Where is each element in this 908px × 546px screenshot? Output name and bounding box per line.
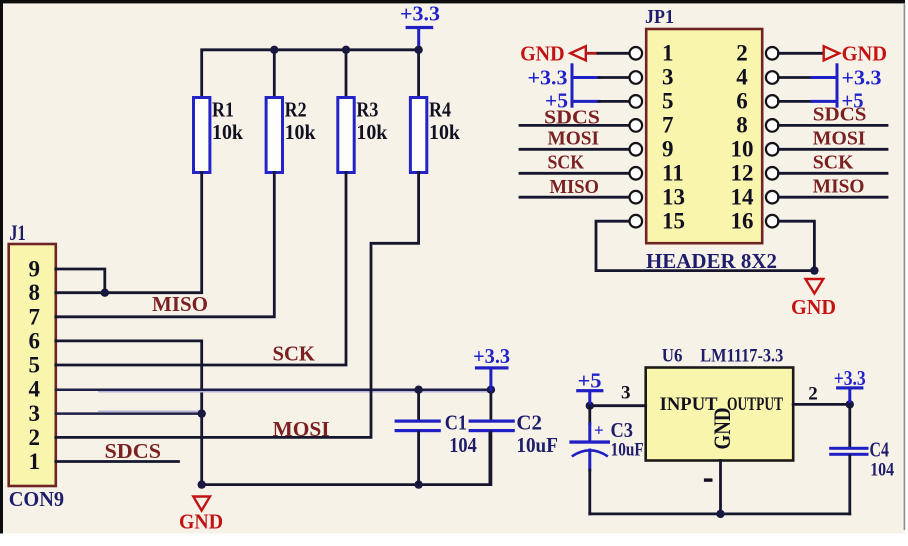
- svg-text:9: 9: [29, 256, 41, 281]
- power +3.3 top symbol: [400, 2, 440, 50]
- svg-text:10: 10: [731, 137, 754, 162]
- wire JP1 pin7 SDCS: [520, 124, 631, 127]
- wire J1 pin5 SCK to R3: [56, 173, 346, 366]
- wire JP1 pin3: [599, 76, 631, 79]
- svg-text:104: 104: [870, 460, 894, 481]
- regulator U6: [646, 347, 794, 461]
- svg-text:R2: R2: [285, 98, 307, 122]
- svg-text:U6: U6: [662, 347, 683, 367]
- wire bottom ground rail: [202, 432, 490, 485]
- wire R3 top lead: [345, 50, 348, 98]
- junction pin4-C1: [414, 386, 422, 394]
- ground symbol GND left: [179, 497, 223, 534]
- wire R4 top lead: [417, 50, 420, 98]
- wire JP1 pin16 to ground: [778, 221, 814, 270]
- svg-text:7: 7: [29, 304, 41, 329]
- wire JP1 pin8 SDCS: [778, 124, 887, 127]
- resistor R1: [194, 98, 244, 173]
- wire J1 pin3 to ground line: [98, 410, 199, 412]
- junction pin15-pin16 ground: [810, 266, 818, 274]
- wire JP1 pin6: [778, 100, 812, 103]
- svg-text:MOSI: MOSI: [813, 127, 866, 149]
- power +5 right of JP1 pin6: [812, 89, 864, 113]
- capacitor C2: [469, 390, 558, 485]
- header JP1: [645, 6, 777, 273]
- pin circle JP1-3: [630, 71, 643, 84]
- svg-text:10k: 10k: [356, 120, 387, 144]
- capacitor C4: [829, 404, 894, 514]
- svg-text:5: 5: [662, 89, 674, 114]
- svg-text:CON9: CON9: [9, 487, 64, 511]
- svg-text:JP1: JP1: [645, 6, 674, 28]
- pin circle JP1-8: [766, 119, 779, 132]
- svg-text:14: 14: [731, 184, 755, 209]
- svg-text:11: 11: [662, 161, 684, 186]
- wire J1 pin6 to ground rail: [56, 341, 202, 485]
- svg-text:15: 15: [662, 208, 685, 233]
- svg-text:3: 3: [662, 65, 674, 90]
- wire JP1 pin2: [778, 52, 822, 55]
- pin circle JP1-2: [766, 47, 779, 60]
- svg-text:J1: J1: [9, 220, 26, 245]
- power +3.3 left of JP1 pin3: [528, 65, 600, 106]
- svg-text:+3.3: +3.3: [473, 344, 510, 368]
- svg-text:3: 3: [621, 383, 631, 404]
- minus sign at U6 gnd: [704, 478, 713, 481]
- svg-text:R4: R4: [429, 98, 451, 122]
- svg-text:6: 6: [736, 89, 748, 114]
- svg-text:6: 6: [29, 328, 41, 353]
- svg-text:+3.3: +3.3: [842, 66, 882, 90]
- svg-text:3: 3: [29, 401, 41, 426]
- svg-text:C1: C1: [445, 411, 467, 435]
- svg-text:MOSI: MOSI: [273, 417, 330, 441]
- svg-text:7: 7: [662, 113, 674, 138]
- svg-text:2: 2: [29, 425, 41, 450]
- svg-text:R3: R3: [356, 98, 378, 122]
- svg-text:C2: C2: [516, 411, 542, 435]
- wire J1 pin7 to R2: [56, 173, 274, 317]
- svg-text:5: 5: [29, 353, 41, 378]
- pin circle JP1-12: [766, 167, 779, 180]
- svg-text:C3: C3: [611, 418, 634, 442]
- svg-text:MISO: MISO: [550, 176, 600, 198]
- svg-text:4: 4: [29, 377, 41, 402]
- svg-text:10k: 10k: [429, 120, 460, 144]
- wire J1 pin1 SDCS stub: [56, 460, 179, 463]
- pin circle JP1-11: [630, 167, 643, 180]
- svg-text:MOSI: MOSI: [548, 127, 600, 149]
- svg-text:SCK: SCK: [273, 341, 316, 365]
- resistor R3: [338, 98, 388, 173]
- pin circle JP1-13: [630, 191, 643, 204]
- wire JP1 pin15 to ground: [596, 221, 814, 270]
- junction +5 C3 input: [586, 402, 594, 410]
- svg-text:8: 8: [736, 113, 748, 138]
- junction U6 gnd rail: [716, 510, 724, 518]
- svg-text:4: 4: [736, 65, 748, 90]
- svg-text:C4: C4: [870, 438, 890, 462]
- pin circle JP1-16: [766, 215, 779, 228]
- svg-text:GND: GND: [520, 41, 565, 65]
- wire JP1 pin13 MISO: [520, 196, 631, 199]
- svg-text:+5: +5: [578, 368, 602, 392]
- svg-text:+3.3: +3.3: [400, 2, 440, 26]
- wire J1 pin2 MOSI to R4: [56, 173, 419, 438]
- svg-text:2: 2: [736, 41, 748, 66]
- pin circle JP1-7: [630, 119, 643, 132]
- junction pin4-C2: [487, 386, 495, 394]
- junction rail-gnd: [198, 480, 206, 488]
- power +3.3 at C2: [473, 344, 510, 390]
- junction pin9-pin8: [101, 289, 109, 297]
- svg-text:GND: GND: [179, 510, 223, 534]
- svg-text:MISO: MISO: [813, 176, 865, 198]
- pin circle JP1-14: [766, 191, 779, 204]
- junction output +3.3 C4: [846, 400, 854, 408]
- resistor R4: [410, 98, 460, 173]
- svg-text:10k: 10k: [285, 120, 316, 144]
- power +3.3 at U6 output: [834, 366, 866, 404]
- junction bus-R3: [342, 46, 350, 54]
- power +5 at U6 input: [576, 368, 603, 405]
- svg-text:GND: GND: [710, 408, 735, 450]
- wire JP1 pin4: [778, 76, 812, 79]
- svg-text:GND: GND: [791, 295, 836, 319]
- svg-text:SCK: SCK: [548, 151, 585, 173]
- svg-text:2: 2: [808, 384, 818, 405]
- svg-text:SDCS: SDCS: [813, 103, 867, 125]
- wire JP1 pin12 SCK: [778, 172, 887, 175]
- svg-text:1: 1: [29, 449, 41, 474]
- svg-text:104: 104: [449, 433, 477, 457]
- wire JP1 pin5: [599, 100, 631, 103]
- wire U6 gnd pin: [719, 461, 722, 514]
- capacitor C3 electrolytic: [569, 406, 643, 514]
- wire U6 bottom rail: [590, 513, 850, 516]
- connector J1: [9, 220, 64, 511]
- junction pin3-ground: [198, 409, 206, 417]
- ground GND arrow left of JP1 pin1: [520, 41, 598, 65]
- pin circle JP1-10: [766, 143, 779, 156]
- svg-text:8: 8: [29, 280, 41, 305]
- svg-text:10uF: 10uF: [611, 440, 644, 461]
- junction bus-R4: [414, 46, 422, 54]
- pin circle JP1-1: [630, 47, 643, 60]
- pin circle JP1-4: [766, 71, 779, 84]
- junction rail-C1: [414, 480, 422, 488]
- power +5 left of JP1 pin5: [545, 89, 599, 113]
- wire J1 pin9 to pin8 net: [56, 269, 105, 293]
- svg-text:R1: R1: [212, 98, 234, 122]
- svg-text:MISO: MISO: [152, 292, 208, 316]
- wire R2 top lead: [273, 50, 276, 98]
- svg-text:13: 13: [662, 184, 685, 209]
- wire JP1 pin1: [598, 52, 631, 55]
- wire U6 input: [590, 404, 646, 407]
- power +3.3 right of JP1 pin4: [812, 65, 882, 106]
- wire J1 pin8 MISO to R1: [56, 173, 202, 293]
- capacitor C1: [395, 390, 478, 485]
- wire JP1 pin11 SCK: [520, 172, 631, 175]
- pin circle JP1-5: [630, 95, 643, 108]
- svg-text:SCK: SCK: [813, 152, 854, 174]
- pin circle JP1-15: [630, 215, 643, 228]
- svg-text:OUTPUT: OUTPUT: [727, 394, 783, 415]
- ground GND arrow right of JP1 pin2: [824, 41, 887, 65]
- wire J1 pin4 to +3.3 node: [56, 388, 491, 391]
- svg-text:GND: GND: [842, 41, 887, 65]
- svg-text:+3.3: +3.3: [528, 66, 568, 90]
- svg-text:1: 1: [662, 41, 674, 66]
- junction bus-R2: [270, 46, 278, 54]
- svg-text:9: 9: [662, 137, 674, 162]
- resistor R2: [266, 98, 316, 173]
- svg-text:10k: 10k: [212, 120, 243, 144]
- wire U6 output: [793, 403, 850, 406]
- svg-text:16: 16: [731, 208, 754, 233]
- svg-text:LM1117-3.3: LM1117-3.3: [700, 347, 783, 367]
- svg-text:10uF: 10uF: [516, 433, 558, 457]
- svg-text:+: +: [594, 421, 604, 440]
- pin circle JP1-6: [766, 95, 779, 108]
- ground symbol GND below JP1: [791, 279, 836, 319]
- wire top bus: [202, 50, 419, 98]
- wire JP1 pin10 MOSI: [778, 148, 887, 151]
- svg-text:12: 12: [731, 161, 754, 186]
- wire JP1 pin9 MOSI: [520, 148, 631, 151]
- wire JP1 pin14 MISO: [778, 196, 887, 199]
- pin circle JP1-9: [630, 143, 643, 156]
- svg-text:SDCS: SDCS: [105, 439, 162, 463]
